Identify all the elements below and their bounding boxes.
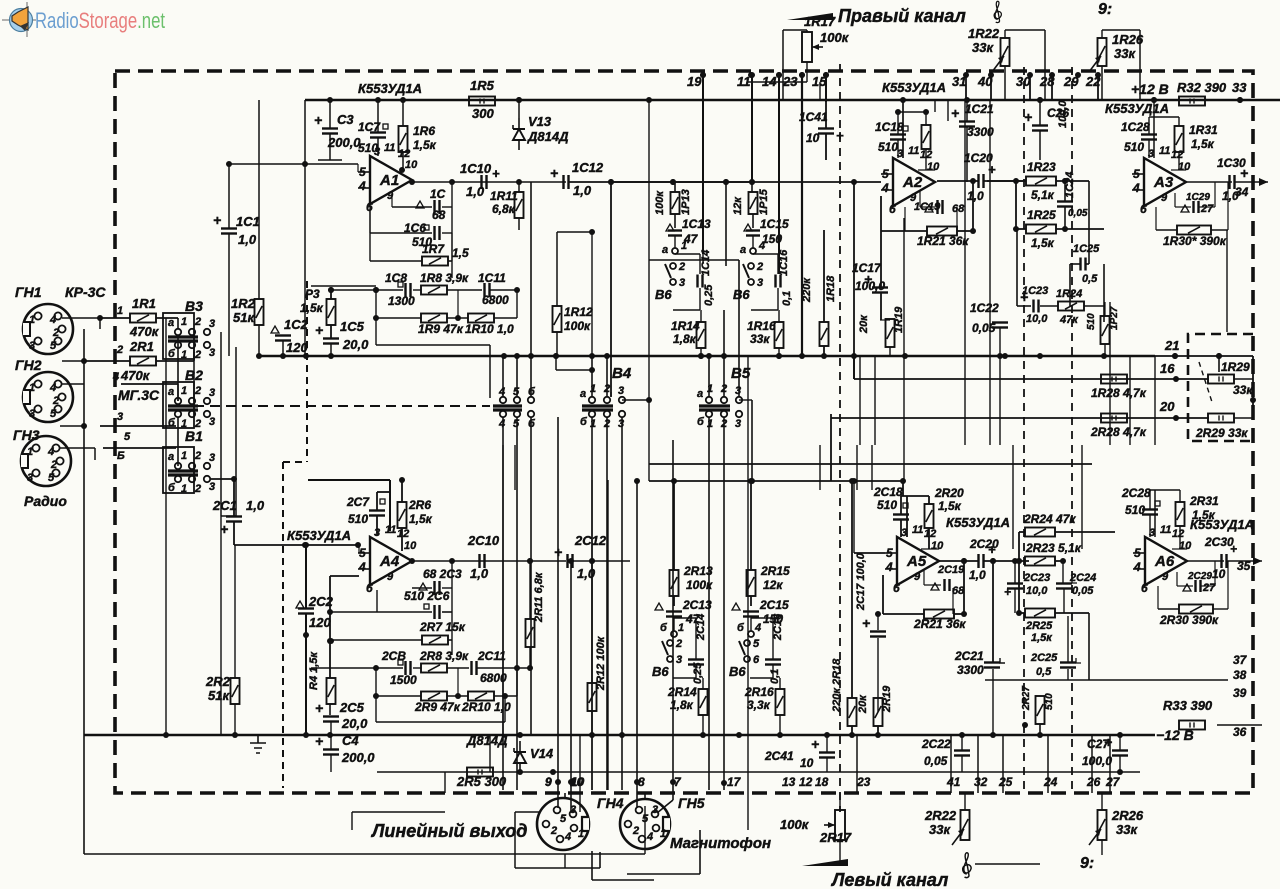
svg-text:1,5к: 1,5к	[938, 499, 962, 513]
svg-text:3: 3	[209, 318, 215, 330]
svg-text:+: +	[315, 322, 323, 338]
svg-text:2С24: 2С24	[1069, 572, 1096, 584]
svg-text:1,5к: 1,5к	[1031, 632, 1053, 644]
svg-text:1: 1	[181, 385, 187, 397]
svg-text:12: 12	[924, 528, 936, 540]
svg-text:100к: 100к	[654, 190, 666, 215]
svg-text:1,5к: 1,5к	[409, 512, 433, 526]
svg-text:1R24: 1R24	[1056, 288, 1082, 300]
svg-text:0,05: 0,05	[1072, 585, 1094, 597]
svg-text:0,1: 0,1	[781, 291, 793, 306]
svg-text:2С10: 2С10	[467, 533, 500, 548]
svg-text:б: б	[168, 417, 176, 429]
svg-text:Д814Д: Д814Д	[527, 129, 569, 144]
svg-text:5: 5	[560, 813, 567, 825]
svg-text:0,25: 0,25	[703, 284, 715, 306]
svg-text:68 2С3: 68 2С3	[423, 567, 462, 581]
svg-text:1С22: 1С22	[970, 301, 999, 315]
svg-text:Радио: Радио	[24, 493, 67, 509]
svg-text:5: 5	[1133, 167, 1140, 181]
svg-text:11: 11	[1159, 145, 1170, 157]
svg-text:10: 10	[404, 540, 417, 552]
svg-text:1,5: 1,5	[452, 246, 469, 260]
svg-text:11: 11	[912, 524, 923, 536]
svg-text:2: 2	[550, 825, 557, 837]
svg-text:0,5: 0,5	[1036, 666, 1052, 678]
svg-text:2: 2	[116, 344, 123, 356]
svg-text:3: 3	[209, 416, 215, 428]
svg-text:200,0: 200,0	[341, 750, 375, 765]
svg-text:2: 2	[675, 638, 682, 650]
svg-text:12к: 12к	[763, 578, 783, 592]
svg-text:4: 4	[49, 314, 56, 326]
svg-text:33к: 33к	[1116, 822, 1138, 837]
svg-text:34: 34	[1235, 185, 1249, 199]
svg-text:RadioStorage.net: RadioStorage.net	[35, 9, 165, 34]
svg-text:Правый канал: Правый канал	[838, 6, 966, 26]
svg-text:б: б	[168, 482, 176, 494]
svg-text:3: 3	[209, 452, 215, 464]
svg-text:+: +	[988, 542, 996, 557]
svg-text:1,5к: 1,5к	[413, 138, 437, 152]
svg-text:2: 2	[194, 450, 201, 462]
svg-text:1R30* 390к: 1R30* 390к	[1163, 234, 1227, 248]
svg-text:1: 1	[590, 383, 596, 395]
svg-text:1R5: 1R5	[470, 78, 495, 93]
svg-text:В3: В3	[185, 298, 203, 314]
svg-text:33к: 33к	[750, 332, 770, 346]
svg-text:2С12: 2С12	[574, 533, 607, 548]
svg-text:1С23: 1С23	[1022, 285, 1048, 297]
svg-text:+: +	[1024, 109, 1032, 125]
svg-text:2: 2	[194, 316, 201, 328]
svg-text:ГН5: ГН5	[678, 795, 705, 811]
svg-text:а: а	[580, 388, 586, 400]
svg-text:2R13: 2R13	[683, 564, 713, 578]
svg-text:33: 33	[1232, 80, 1247, 95]
svg-text:2С14: 2С14	[695, 614, 707, 641]
svg-text:27: 27	[1202, 582, 1216, 594]
svg-text:47к: 47к	[1059, 314, 1079, 326]
svg-text:510: 510	[348, 512, 368, 526]
svg-text:Левый канал: Левый канал	[830, 870, 948, 889]
svg-text:0,05: 0,05	[1068, 208, 1088, 219]
svg-text:1С14: 1С14	[700, 250, 712, 276]
svg-text:470к: 470к	[120, 368, 151, 383]
svg-text:4: 4	[112, 371, 119, 383]
svg-text:10: 10	[800, 756, 814, 770]
svg-text:4: 4	[885, 560, 893, 574]
svg-text:12: 12	[1172, 528, 1184, 540]
svg-text:2С22: 2С22	[921, 737, 951, 751]
svg-text:5: 5	[886, 546, 893, 560]
svg-text:В6: В6	[733, 287, 750, 302]
svg-text:4: 4	[754, 622, 761, 634]
svg-text:+: +	[315, 733, 323, 749]
svg-text:2С23: 2С23	[1023, 572, 1050, 584]
svg-text:С27: С27	[1087, 737, 1110, 751]
svg-text:1R17: 1R17	[804, 14, 836, 29]
svg-text:2R26: 2R26	[1111, 808, 1144, 823]
svg-text:А3: А3	[1153, 174, 1174, 191]
svg-text:51к: 51к	[233, 310, 255, 325]
svg-text:3: 3	[117, 411, 123, 423]
svg-text:1: 1	[707, 383, 713, 395]
svg-text:20,0: 20,0	[341, 716, 368, 731]
svg-text:1С25: 1С25	[1073, 243, 1100, 255]
svg-text:Б: Б	[117, 450, 125, 462]
svg-text:2R28 4,7к: 2R28 4,7к	[1090, 425, 1147, 439]
svg-text:Линейный выход: Линейный выход	[370, 821, 527, 841]
svg-text:9: 9	[1162, 571, 1169, 583]
svg-text:1С11: 1С11	[478, 271, 506, 285]
svg-text:2R11 6,8к: 2R11 6,8к	[533, 571, 545, 623]
svg-text:1R21 36к: 1R21 36к	[917, 234, 969, 248]
svg-text:К553УД1А: К553УД1А	[358, 81, 422, 96]
svg-text:4: 4	[646, 831, 653, 843]
svg-text:1,5к: 1,5к	[1191, 137, 1215, 151]
svg-text:ГН2: ГН2	[15, 357, 42, 373]
svg-text:3: 3	[209, 481, 215, 493]
svg-text:1С17: 1С17	[852, 261, 882, 275]
svg-text:К553УД1А: К553УД1А	[1105, 101, 1169, 116]
svg-text:100к: 100к	[780, 817, 810, 832]
svg-text:1R2: 1R2	[231, 296, 256, 311]
svg-text:18: 18	[815, 775, 829, 789]
svg-text:R4 1,5к: R4 1,5к	[308, 651, 320, 690]
svg-text:1R6: 1R6	[413, 124, 435, 138]
svg-text:2R9 47к: 2R9 47к	[414, 700, 461, 714]
svg-text:2R23 5,1к: 2R23 5,1к	[1025, 541, 1082, 555]
svg-text:23: 23	[856, 775, 871, 789]
svg-text:1С12: 1С12	[572, 160, 604, 175]
svg-text:38: 38	[1233, 668, 1247, 682]
svg-text:1С30: 1С30	[1217, 156, 1246, 170]
svg-text:10,0: 10,0	[1026, 585, 1048, 597]
svg-text:1,0: 1,0	[470, 566, 489, 581]
svg-text:1R16: 1R16	[747, 319, 776, 333]
svg-text:2R29 33к: 2R29 33к	[1195, 426, 1248, 440]
svg-text:10: 10	[1178, 161, 1191, 173]
svg-text:1R1: 1R1	[132, 296, 156, 311]
svg-text:27: 27	[1200, 203, 1214, 215]
svg-text:3: 3	[27, 472, 33, 484]
svg-text:9: 9	[1161, 192, 1168, 204]
svg-text:5: 5	[359, 165, 366, 179]
svg-text:1Р15: 1Р15	[758, 188, 770, 215]
svg-text:2С41: 2С41	[764, 749, 794, 763]
svg-text:V14: V14	[530, 746, 554, 761]
svg-text:б: б	[737, 622, 745, 634]
svg-text:+: +	[862, 615, 870, 631]
svg-text:2R2: 2R2	[205, 674, 231, 689]
svg-text:2R12 100к: 2R12 100к	[595, 635, 607, 691]
svg-text:1Р13: 1Р13	[680, 189, 692, 215]
svg-text:2R7 15к: 2R7 15к	[419, 620, 466, 634]
svg-text:11: 11	[908, 145, 919, 157]
svg-text:А5: А5	[906, 553, 927, 570]
svg-text:23: 23	[782, 74, 798, 89]
svg-text:3300: 3300	[957, 663, 984, 677]
svg-text:20к: 20к	[857, 694, 869, 714]
svg-text:б: б	[168, 348, 176, 360]
svg-text:А4: А4	[379, 553, 400, 570]
svg-text:5: 5	[48, 472, 55, 484]
svg-text:1R9 47к: 1R9 47к	[418, 322, 464, 336]
svg-text:10: 10	[927, 161, 940, 173]
svg-text:11: 11	[1160, 524, 1171, 536]
svg-text:4: 4	[1132, 181, 1140, 195]
svg-text:24: 24	[1043, 775, 1058, 789]
svg-text:3: 3	[618, 385, 624, 397]
svg-text:1С41: 1С41	[799, 110, 828, 124]
svg-text:1С18: 1С18	[875, 120, 904, 134]
svg-text:3: 3	[209, 347, 215, 359]
svg-text:9: 9	[914, 571, 921, 583]
svg-text:V13: V13	[528, 114, 552, 129]
svg-text:1R12: 1R12	[564, 305, 593, 319]
svg-text:2R6: 2R6	[408, 498, 431, 512]
svg-text:2R27: 2R27	[1021, 686, 1032, 711]
svg-text:5: 5	[359, 546, 366, 560]
svg-text:220к 2R18: 220к 2R18	[831, 658, 843, 713]
svg-text:4: 4	[758, 240, 765, 252]
svg-text:+: +	[836, 128, 844, 143]
svg-text:0,1: 0,1	[769, 669, 781, 684]
svg-text:1,0: 1,0	[246, 498, 265, 513]
svg-text:2R14: 2R14	[667, 685, 697, 699]
svg-text:1: 1	[181, 349, 187, 361]
svg-text:33к: 33к	[929, 822, 951, 837]
svg-text:6: 6	[1141, 581, 1148, 595]
svg-text:2R1: 2R1	[129, 339, 154, 354]
svg-text:5: 5	[753, 638, 760, 650]
svg-text:68: 68	[432, 208, 446, 222]
svg-text:1: 1	[707, 418, 713, 430]
svg-text:3: 3	[618, 418, 624, 430]
svg-text:С3: С3	[337, 112, 354, 127]
svg-text:б: б	[580, 416, 588, 428]
svg-text:2R31: 2R31	[1189, 494, 1219, 508]
svg-text:2R20: 2R20	[934, 486, 964, 500]
svg-text:21: 21	[1164, 338, 1179, 353]
svg-text:17: 17	[727, 775, 742, 789]
svg-text:ГН3: ГН3	[13, 427, 40, 443]
svg-text:1,0: 1,0	[967, 189, 984, 203]
svg-text:2С21: 2С21	[954, 649, 984, 663]
svg-text:1С5: 1С5	[340, 319, 365, 334]
svg-text:В6: В6	[729, 664, 746, 679]
svg-text:5: 5	[882, 167, 889, 181]
svg-text:6: 6	[366, 581, 373, 595]
svg-text:3: 3	[652, 804, 658, 816]
svg-text:12к: 12к	[732, 196, 744, 215]
svg-text:К553УД1А: К553УД1А	[287, 528, 351, 543]
svg-text:Д814Д: Д814Д	[466, 733, 508, 748]
svg-text:4: 4	[881, 181, 889, 195]
svg-text:1R26: 1R26	[1112, 32, 1144, 47]
svg-text:10,0: 10,0	[1026, 313, 1048, 325]
svg-text:26: 26	[1086, 775, 1101, 789]
svg-text:10: 10	[1179, 540, 1192, 552]
svg-text:1С: 1С	[430, 187, 446, 201]
svg-text:1: 1	[27, 446, 33, 458]
svg-text:1,0: 1,0	[573, 183, 592, 198]
svg-text:2R22: 2R22	[924, 808, 957, 823]
svg-text:2С15: 2С15	[759, 598, 789, 612]
svg-text:1,5к: 1,5к	[300, 301, 324, 315]
svg-text:2R5 300: 2R5 300	[456, 774, 507, 789]
svg-text:0,05: 0,05	[924, 754, 948, 768]
svg-text:КР-3С: КР-3С	[65, 284, 106, 300]
svg-text:1500: 1500	[390, 673, 417, 687]
svg-text:1,5к: 1,5к	[1031, 236, 1055, 250]
svg-text:9:: 9:	[1098, 1, 1112, 18]
svg-text:12: 12	[397, 528, 409, 540]
svg-text:2R30 390к: 2R30 390к	[1159, 613, 1219, 627]
svg-text:2С18: 2С18	[873, 485, 903, 499]
svg-text:1С24: 1С24	[1064, 172, 1076, 198]
svg-text:б: б	[697, 416, 705, 428]
svg-text:ГН1: ГН1	[15, 284, 42, 300]
svg-text:1С13: 1С13	[682, 217, 711, 231]
svg-text:Р3: Р3	[305, 287, 320, 301]
svg-text:1R23: 1R23	[1027, 160, 1056, 174]
svg-text:1: 1	[678, 622, 684, 634]
svg-text:1R18: 1R18	[825, 275, 837, 302]
svg-text:510: 510	[878, 140, 898, 154]
svg-text:5,1к: 5,1к	[1031, 188, 1055, 202]
svg-text:2СВ: 2СВ	[381, 649, 406, 663]
svg-text:1: 1	[117, 305, 123, 317]
svg-text:10: 10	[806, 131, 820, 145]
svg-text:2: 2	[194, 349, 201, 361]
svg-text:5: 5	[1134, 546, 1141, 560]
svg-text:2С28: 2С28	[1121, 486, 1151, 500]
svg-text:3: 3	[676, 654, 682, 666]
svg-text:32: 32	[974, 775, 988, 789]
svg-text:1R28 4,7к: 1R28 4,7к	[1091, 386, 1147, 400]
svg-text:510: 510	[1124, 140, 1144, 154]
svg-text:1С1: 1С1	[236, 214, 260, 229]
svg-text:2: 2	[194, 483, 201, 495]
svg-text:1: 1	[578, 828, 584, 840]
svg-text:С4: С4	[342, 733, 359, 748]
svg-text:+: +	[314, 112, 322, 128]
svg-text:В6: В6	[655, 287, 672, 302]
svg-text:1,5к: 1,5к	[1192, 508, 1216, 522]
svg-text:510: 510	[1044, 693, 1055, 710]
svg-text:510 2С6: 510 2С6	[404, 589, 450, 603]
svg-text:−12 В: −12 В	[1156, 727, 1194, 743]
svg-text:В6: В6	[652, 664, 669, 679]
svg-text:3,3к: 3,3к	[747, 698, 771, 712]
svg-text:1,0: 1,0	[577, 566, 596, 581]
svg-text:1С15: 1С15	[760, 217, 789, 231]
svg-text:0,5: 0,5	[1082, 273, 1098, 285]
svg-text:36: 36	[1233, 725, 1247, 739]
svg-text:41: 41	[946, 775, 961, 789]
svg-text:А1: А1	[379, 172, 399, 189]
svg-text:+: +	[951, 105, 959, 121]
svg-text:4: 4	[49, 382, 56, 394]
svg-text:3: 3	[29, 408, 35, 420]
svg-text:ГН4: ГН4	[597, 795, 624, 811]
svg-text:1С28: 1С28	[1121, 120, 1150, 134]
svg-text:3: 3	[209, 387, 215, 399]
svg-text:2R24 47к: 2R24 47к	[1023, 512, 1076, 526]
svg-text:+: +	[1004, 585, 1011, 599]
svg-text:6: 6	[889, 202, 896, 216]
svg-text:0,05: 0,05	[972, 321, 996, 335]
svg-text:33к: 33к	[1233, 383, 1253, 397]
svg-text:68: 68	[952, 203, 965, 215]
svg-text:25: 25	[998, 775, 1013, 789]
svg-text:1: 1	[181, 483, 187, 495]
svg-text:1С29: 1С29	[1186, 192, 1210, 203]
svg-text:100к: 100к	[564, 319, 591, 333]
svg-text:б: б	[660, 622, 668, 634]
svg-text:16: 16	[1160, 361, 1175, 376]
svg-text:9: 9	[387, 571, 394, 583]
svg-text:4: 4	[1133, 560, 1141, 574]
svg-text:4: 4	[358, 560, 366, 574]
svg-text:20к: 20к	[858, 314, 870, 334]
svg-text:+: +	[550, 165, 558, 181]
svg-text:6,8к: 6,8к	[492, 202, 516, 216]
svg-text:А6: А6	[1154, 553, 1175, 570]
svg-text:2R21 36к: 2R21 36к	[913, 617, 966, 631]
svg-text:19: 19	[687, 74, 702, 89]
svg-text:1,0: 1,0	[466, 184, 485, 199]
svg-text:5: 5	[50, 340, 57, 352]
svg-text:12: 12	[799, 775, 813, 789]
svg-text:2С5: 2С5	[339, 700, 365, 715]
svg-text:10: 10	[1212, 567, 1226, 581]
svg-text:В1: В1	[185, 428, 203, 444]
svg-text:2R17: 2R17	[819, 830, 852, 845]
svg-text:1: 1	[29, 314, 35, 326]
svg-text:2С29: 2С29	[1187, 571, 1212, 582]
svg-text:2: 2	[756, 261, 763, 273]
svg-text:МГ.3С: МГ.3С	[118, 387, 160, 403]
svg-text:1R8 3,9к: 1R8 3,9к	[420, 271, 469, 285]
svg-text:1: 1	[181, 316, 187, 328]
svg-text:1,0: 1,0	[969, 568, 986, 582]
svg-text:33к: 33к	[1114, 46, 1136, 61]
svg-text:б: б	[528, 418, 536, 430]
svg-text:+: +	[213, 212, 221, 228]
svg-text:К553УД1А: К553УД1А	[946, 515, 1010, 530]
svg-text:6: 6	[753, 654, 760, 666]
svg-text:1R22: 1R22	[968, 26, 1000, 41]
svg-text:10: 10	[405, 159, 418, 171]
svg-text:100к: 100к	[820, 30, 850, 45]
svg-text:4: 4	[564, 831, 571, 843]
svg-text:2С7: 2С7	[346, 495, 370, 509]
svg-text:R33 390: R33 390	[1163, 698, 1213, 713]
svg-text:2R25: 2R25	[1025, 620, 1053, 632]
svg-text:37: 37	[1233, 653, 1248, 667]
svg-text:6: 6	[893, 581, 900, 595]
svg-text:2С25: 2С25	[1030, 652, 1058, 664]
svg-text:2С19: 2С19	[937, 564, 965, 576]
svg-text:а: а	[168, 386, 174, 398]
svg-text:14: 14	[762, 74, 777, 89]
svg-text:3: 3	[29, 340, 35, 352]
svg-text:470к: 470к	[129, 324, 160, 339]
svg-text:К553УД1А: К553УД1А	[882, 80, 946, 95]
